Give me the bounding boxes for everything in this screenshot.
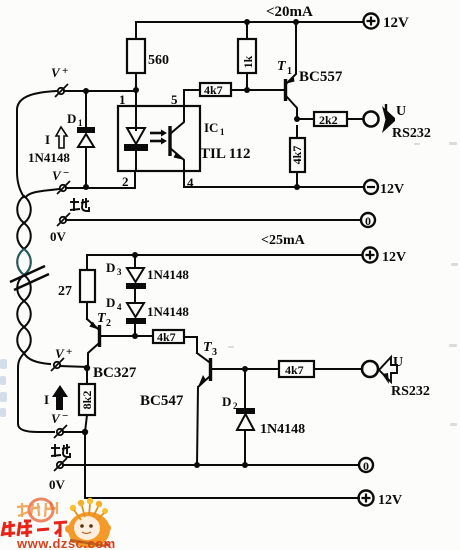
svg-text:V: V xyxy=(51,65,61,80)
svg-text:4k7: 4k7 xyxy=(157,330,176,344)
svg-text:3: 3 xyxy=(212,347,217,358)
svg-text:0: 0 xyxy=(363,459,369,473)
arrow U in (open) xyxy=(379,355,430,399)
terminal +12V mid xyxy=(363,248,407,266)
svg-text:1N4148: 1N4148 xyxy=(147,267,189,282)
terminal 0 bottom xyxy=(359,458,373,473)
transistor T2 BC327 xyxy=(87,311,153,381)
terminal RS232 out circle xyxy=(364,112,379,127)
zhao xin pian (orange outline text) xyxy=(17,502,58,517)
twist bottom to V- (bottom) xyxy=(18,353,54,432)
transistor T1 BC557 xyxy=(277,22,343,119)
svg-text:1: 1 xyxy=(220,127,225,137)
wire pin4 to -12V rail xyxy=(184,171,363,187)
svg-text:12V: 12V xyxy=(383,15,409,31)
resistor 1k xyxy=(238,22,256,90)
svg-text:U: U xyxy=(393,355,403,370)
opto LED xyxy=(124,106,148,171)
connector V+ bottom xyxy=(51,346,72,371)
svg-text:V: V xyxy=(52,168,62,183)
svg-text:RS232: RS232 xyxy=(391,384,430,399)
wire V+ to node xyxy=(64,90,133,92)
svg-text:12V: 12V xyxy=(380,182,404,197)
svg-text:T: T xyxy=(277,59,287,74)
resistor 27 xyxy=(58,270,95,319)
twisted pair xyxy=(17,196,31,353)
wire +12V mid rail xyxy=(87,255,362,270)
svg-text:TIL 112: TIL 112 xyxy=(200,146,250,162)
svg-text:5: 5 xyxy=(171,92,178,107)
svg-text:IC: IC xyxy=(204,120,218,135)
diode D2 1N4148 xyxy=(222,369,305,465)
earth label top (Chinese di, drawn) xyxy=(70,198,89,211)
svg-text:27: 27 xyxy=(58,284,72,299)
svg-text:0: 0 xyxy=(365,214,371,228)
node V- / 8k2 bottom xyxy=(82,429,88,435)
svg-text:1: 1 xyxy=(119,92,126,107)
svg-text:<25mA: <25mA xyxy=(261,233,306,248)
mascot body xyxy=(65,498,112,549)
resistor 8k2 xyxy=(79,368,95,432)
svg-text:8k2: 8k2 xyxy=(80,391,94,410)
current arrow I (top input) xyxy=(45,127,67,148)
diode D3 1N4148 xyxy=(106,255,189,303)
teal tinted twist segment xyxy=(17,249,31,275)
resistor 4k7 top (base R) xyxy=(200,83,231,97)
terminal -12V xyxy=(364,180,404,197)
current arrow I (bottom input, filled) xyxy=(44,385,68,410)
terminal RS232 in circle xyxy=(362,361,378,377)
resistor 4k7 (T2 base) xyxy=(153,330,197,353)
wire V- to 8k2 bottom node xyxy=(63,431,85,433)
svg-text:−: − xyxy=(62,410,68,422)
svg-text:1N4148: 1N4148 xyxy=(147,304,189,319)
node 1k top xyxy=(244,19,250,25)
svg-text:+: + xyxy=(62,65,68,77)
connector V- bottom xyxy=(51,410,68,438)
diode D1 1N4148 xyxy=(67,91,95,186)
svg-text:560: 560 xyxy=(148,53,169,68)
svg-text:RS232: RS232 xyxy=(392,126,431,141)
svg-text:BC557: BC557 xyxy=(299,69,343,85)
logo red ball xyxy=(29,499,53,521)
wire pin2 stub xyxy=(134,171,136,188)
svg-text:3: 3 xyxy=(117,267,122,277)
svg-text:+: + xyxy=(66,346,72,358)
faint scan specks (decorative) xyxy=(228,142,458,426)
svg-text:I: I xyxy=(44,392,49,407)
svg-text:1k: 1k xyxy=(241,55,255,68)
svg-text:D: D xyxy=(222,394,231,409)
wire 4k7 to T1 base xyxy=(231,89,284,91)
svg-text:4k7: 4k7 xyxy=(290,146,304,165)
svg-text:V: V xyxy=(51,411,61,426)
resistor 2k2 xyxy=(297,112,363,127)
svg-text:4k7: 4k7 xyxy=(204,83,223,97)
svg-text:12V: 12V xyxy=(378,493,402,508)
svg-text:12V: 12V xyxy=(382,250,406,265)
wire pin5 to 4k7 xyxy=(184,90,200,106)
svg-text:BC547: BC547 xyxy=(140,393,184,409)
wire 560 bottom to node xyxy=(135,73,137,106)
node D1 bottom xyxy=(83,184,89,190)
svg-text:4: 4 xyxy=(117,302,122,312)
svg-text:2: 2 xyxy=(122,174,129,189)
diode D4 1N4148 xyxy=(106,295,189,336)
svg-text:V: V xyxy=(55,346,65,361)
node D1 top xyxy=(83,88,89,94)
svg-text:1N4148: 1N4148 xyxy=(28,150,70,165)
transistor T3 BC547 xyxy=(140,340,279,465)
node T3 base / D2 xyxy=(242,366,248,372)
node D3 top xyxy=(132,252,138,258)
svg-text:1N4148: 1N4148 xyxy=(260,422,305,437)
terminal +12V bottom xyxy=(359,491,403,509)
connector 0V top xyxy=(50,213,70,244)
svg-text:<20mA: <20mA xyxy=(266,4,313,20)
node T2 collector / 8k2 xyxy=(84,365,90,371)
svg-text:0V: 0V xyxy=(49,477,66,492)
node junction 560/pin1/V+ xyxy=(133,87,139,93)
node 1k bottom / base xyxy=(244,87,250,93)
connector V+ top xyxy=(51,65,68,97)
node D2 on 0V xyxy=(242,462,248,468)
wire down to +12V bottom rail xyxy=(85,432,359,498)
terminal +12V top xyxy=(364,14,410,32)
terminal 0 top xyxy=(361,213,375,228)
wire V+ to T2 collector node xyxy=(60,366,87,367)
wire 0V top rail xyxy=(66,219,361,221)
svg-text:D: D xyxy=(67,111,76,126)
opto light arrows xyxy=(150,130,167,145)
node D4 bottom / T2 base xyxy=(132,333,138,339)
svg-text:BC327: BC327 xyxy=(93,365,137,381)
opto phototransistor xyxy=(170,106,184,171)
wire V- to pin2 xyxy=(66,187,135,189)
svg-text:D: D xyxy=(106,260,115,275)
connector 0V bottom xyxy=(49,458,67,492)
svg-text:2: 2 xyxy=(233,401,238,411)
wire top +12V rail xyxy=(136,22,363,39)
left edge blue smudges xyxy=(0,359,7,417)
svg-text:2: 2 xyxy=(106,318,111,329)
earth label bottom (Chinese di, drawn) xyxy=(51,444,70,457)
arrow U out (filled) xyxy=(382,104,431,141)
svg-text:1: 1 xyxy=(287,66,292,77)
resistor 4k7 (RS232 in) xyxy=(279,361,362,377)
node T1 emitter top xyxy=(293,19,299,25)
cable break slashes xyxy=(10,266,45,282)
svg-text:0V: 0V xyxy=(50,229,67,244)
svg-text:I: I xyxy=(45,132,50,147)
svg-text:D: D xyxy=(106,295,115,310)
opto-coupler IC1 box xyxy=(118,106,200,171)
svg-text:−: − xyxy=(63,167,69,179)
svg-text:U: U xyxy=(396,104,406,119)
wire V+ left curve xyxy=(17,91,57,197)
resistor 560 xyxy=(127,39,169,73)
node 4k7 bottom xyxy=(294,184,300,190)
wire V- left curve xyxy=(26,189,59,197)
svg-text:2k2: 2k2 xyxy=(319,113,338,127)
svg-text:1: 1 xyxy=(78,118,83,128)
resistor 4k7 vertical (pullup) xyxy=(290,126,305,187)
node T3 emitter on 0V xyxy=(194,462,200,468)
svg-text:4k7: 4k7 xyxy=(285,363,304,377)
wire 0V bottom rail xyxy=(63,464,359,466)
connector V- top xyxy=(52,167,70,194)
svg-text:www.dzsc.com: www.dzsc.com xyxy=(16,536,116,550)
twist bottom to V+ (bottom) xyxy=(24,353,50,364)
wei ku yi xia (red text) xyxy=(2,521,67,537)
node T1 collector xyxy=(294,116,300,122)
